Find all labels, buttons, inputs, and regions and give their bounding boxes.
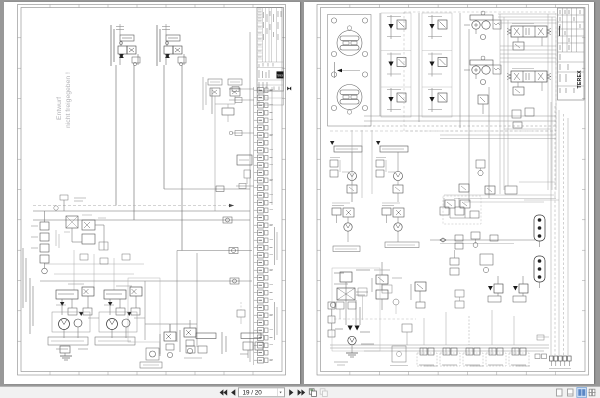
- charge pump group G1 wires: [336, 215, 338, 223]
- aux column wires: [381, 262, 383, 310]
- manifold valve W1 label plate: [419, 364, 434, 366]
- grid risers to lower section: [352, 130, 372, 202]
- feeder wire y98: [229, 98, 254, 103]
- viewer toolbar: [0, 386, 600, 398]
- solenoid valve Y6 caption below: [428, 109, 442, 111]
- frame inner border: [321, 8, 586, 372]
- valve group B solenoid valve: [164, 46, 173, 54]
- priority valve PV2 stub wires: [475, 74, 477, 79]
- manifold drop wires: [424, 310, 514, 345]
- directional valve DV2 springs: [507, 74, 511, 80]
- continuous view icon: [568, 389, 574, 396]
- brake valve B1 rotated label: [159, 334, 161, 356]
- watermark "Entwurf nicht freigegeben !": [56, 72, 72, 128]
- manifold valve W4 label plate: [488, 364, 503, 366]
- G1 name plate: [333, 246, 360, 252]
- rotated caption "Zusatzsteuerung": [23, 248, 26, 308]
- B2 lower comps: [184, 346, 207, 358]
- svg-text:nicht freigegeben !: nicht freigegeben !: [65, 72, 72, 128]
- ladder cell dark ticks: [259, 90, 273, 360]
- aux valve column box1: [376, 275, 388, 284]
- frame outer border: [317, 5, 589, 376]
- pump group P2 dark arrows: [108, 302, 112, 306]
- brake valve B1 spring box: [166, 344, 174, 350]
- charge pump group G2 valve body: [393, 208, 404, 217]
- valve group A solenoid valve: [118, 46, 127, 54]
- node symbol on y187: [216, 186, 224, 192]
- relief box on ladder: [237, 155, 252, 165]
- mid comp MC3: [485, 186, 495, 194]
- cluster C3 comps: [240, 342, 263, 358]
- solenoid valve Y4 solenoid arrow (dark): [429, 24, 434, 29]
- mid comp MC4: [505, 186, 517, 194]
- pump group P1 check valves: [68, 308, 77, 315]
- accumulator AC1 gas dots: [538, 218, 542, 222]
- priority valve PV2 top plate: [470, 60, 493, 65]
- auxiliary valve pair labels: [208, 79, 222, 85]
- check valve on bus y248: [229, 248, 238, 254]
- manifold valve W1 dashed box: [417, 353, 437, 366]
- mid solid collector b: [440, 138, 556, 140]
- brake valve B2 port circle: [187, 348, 192, 353]
- valve group A pilot symbols: [132, 57, 140, 63]
- supply tank hatched: [346, 353, 358, 357]
- reducer valve chain: [40, 211, 49, 274]
- manifold valve W4 valve: [489, 348, 496, 355]
- supply chain gauge circle: [330, 302, 335, 307]
- right terminator squares: [550, 356, 572, 366]
- pump module PM1 wires: [351, 152, 353, 172]
- mid comp MC2: [459, 184, 469, 192]
- valve group A port lines: [120, 41, 122, 47]
- tank return fitting: [60, 346, 70, 353]
- brake valve B2 rotated label: [179, 330, 181, 352]
- valve group A top stub: [119, 24, 121, 35]
- chain side labels: [31, 226, 38, 248]
- steering arrow marker: [337, 69, 342, 73]
- manifold valve W3 label plate: [465, 364, 480, 366]
- pump group P2 motor circle: [107, 319, 118, 330]
- lower small valve of cluster: [222, 108, 234, 115]
- svg-text:19 / 20: 19 / 20: [243, 390, 263, 397]
- solenoid valve Y4 valve body: [438, 20, 447, 29]
- wire bus y209: [33, 210, 250, 212]
- shuttle valve below PV2: [478, 95, 488, 114]
- feeder wire y131: [229, 131, 254, 136]
- solenoid valve Y2 valve body: [397, 58, 406, 67]
- solenoid valve Y5 caption below: [428, 73, 442, 75]
- solenoid valve Y2 solenoid arrow (dark): [388, 62, 393, 67]
- gauge symbol on bus: [54, 206, 58, 210]
- priority valve PV1 bottom port circle: [480, 34, 485, 39]
- wire from group A port 2: [133, 65, 135, 220]
- wire bus y187: [164, 188, 250, 190]
- arrow head on dashed line: [229, 204, 234, 208]
- auxiliary valve rotated caption: [202, 77, 204, 110]
- small comp right of G2 a: [440, 198, 449, 215]
- supply group enclosure: [332, 268, 416, 351]
- valve group B label box: [166, 35, 180, 41]
- G2 name plate: [385, 242, 419, 248]
- fold mark bowtie: [287, 87, 291, 91]
- mid valve M1: [415, 282, 426, 308]
- manifold valve W2 valve: [443, 348, 450, 355]
- release valve R1 solenoid arrow: [488, 286, 493, 291]
- solenoid valve Y3 caption below: [387, 109, 401, 111]
- valve V10: [82, 220, 95, 230]
- last-page button: [298, 389, 306, 395]
- solenoid valve Y1 caption below: [387, 36, 401, 38]
- svg-text:Entwurf: Entwurf: [56, 97, 63, 120]
- accumulator AC1 port wire: [539, 241, 541, 247]
- wire from group A port 1: [115, 65, 117, 206]
- drain wire to tank: [64, 353, 66, 356]
- release valve R1 valve body: [494, 284, 503, 293]
- two-page continuous icon: [588, 389, 595, 396]
- pump group P1 caption smudges: [48, 337, 88, 345]
- release valve R2 valve body: [519, 284, 528, 293]
- manifold valve W2 label plate: [442, 364, 457, 366]
- grid lower collector lines: [364, 116, 556, 126]
- pump module PM1 lower boxes: [347, 185, 357, 193]
- two-page view icon (active): [577, 388, 587, 398]
- valve grid column frames: [381, 13, 452, 117]
- center bus y238: [430, 240, 535, 244]
- small caption above bus: [74, 198, 86, 201]
- orbitrol U1 spool bars: [340, 36, 359, 41]
- pump group P2 pilot valve: [130, 287, 142, 296]
- manifold valve W1 valve: [420, 348, 427, 355]
- dashed reference line y203.5: [33, 205, 234, 207]
- solenoid valve Y6 valve body: [438, 93, 447, 102]
- aux column captions: [372, 270, 402, 292]
- connector ladder column: [254, 88, 273, 364]
- priority valve PV1 twin circles: [472, 21, 480, 29]
- solenoid valve Y1 solenoid arrow (dark): [388, 24, 393, 29]
- priority valve PV2 bottom port circle: [480, 79, 485, 84]
- pump module PM2 side comps: [376, 160, 384, 167]
- pump module PM1 top label plate: [334, 146, 362, 152]
- svg-text:TEREX: TEREX: [277, 73, 283, 77]
- left riser pipes: [500, 14, 508, 194]
- pump module PM2 wires: [397, 152, 399, 172]
- first-page button: [220, 389, 228, 395]
- brake valve B2 spring box: [186, 340, 194, 346]
- grid mid bus: [418, 13, 420, 122]
- wire bus y279: [40, 280, 252, 282]
- right risers lower: [504, 102, 568, 355]
- page-forward layout icon (disabled): [320, 389, 327, 397]
- valve group B top stub: [165, 24, 167, 35]
- mid band connecting wires: [444, 195, 556, 202]
- release valve R1 wires: [497, 293, 499, 296]
- brake valve B2 wire: [189, 320, 191, 328]
- center box V22: [470, 211, 479, 218]
- directional valve DV2 wires below: [517, 82, 519, 87]
- title block extra text rows: [258, 9, 262, 57]
- orbitrol U1 body circle: [337, 31, 362, 56]
- pump group P2 connecting wires: [109, 299, 111, 315]
- pump module PM2 top label plate: [380, 146, 408, 152]
- page number box: [239, 388, 285, 397]
- steering unit enclosure: [328, 15, 372, 127]
- directional valve DV1 body: [511, 26, 547, 37]
- aux valve column box2: [376, 290, 388, 299]
- bottom mid box M2: [390, 346, 408, 366]
- wire x166 drop: [169, 324, 171, 332]
- pre-manifold comp pair: [455, 290, 464, 308]
- cluster C3 name plate: [241, 333, 261, 339]
- comp near ladder x237: [237, 302, 245, 324]
- pump module PM2 pump circle: [394, 172, 403, 181]
- accumulator AC2 shell: [534, 256, 545, 282]
- manifold valve W5 valve: [512, 348, 519, 355]
- control block dashed enclosure: [404, 12, 556, 131]
- check valve on bus y218: [223, 217, 232, 223]
- directional valve DV2 pilot box below: [513, 87, 524, 95]
- frame tick marks: [18, 5, 286, 376]
- solenoid valve Y1 caption above: [387, 16, 401, 18]
- third pump assembly: [140, 348, 162, 368]
- subsystem enclosure box: [128, 278, 160, 342]
- right schematic page: [304, 2, 594, 384]
- manifold valve W5 dashed box: [509, 353, 529, 366]
- directional valve DV1 springs: [507, 29, 511, 35]
- manifold valve W3 dashed box: [463, 353, 483, 366]
- right-mid pump comp: [382, 285, 399, 314]
- solenoid valve Y5 solenoid arrow (dark): [429, 62, 434, 67]
- cluster caption smudges: [64, 215, 106, 232]
- small relief valve: [99, 242, 108, 250]
- pressure tap T1: [60, 195, 68, 200]
- right lower caption: [549, 368, 571, 370]
- solenoid valve Y4 caption above: [428, 16, 442, 18]
- frame tick marks: [317, 5, 586, 376]
- orbitrol U2 port circles: [331, 72, 336, 77]
- tank symbol hatched: [60, 356, 72, 360]
- bus stack with circle: [471, 232, 480, 247]
- charge pump group G1 valve body: [343, 208, 354, 217]
- pump module PM2 lower boxes: [393, 185, 403, 193]
- small comp right of G2 b: [455, 198, 464, 215]
- right riser pipes: [548, 14, 556, 190]
- ladder rotated caption 1: [275, 227, 278, 265]
- charge pump group G2 caption above: [382, 202, 400, 204]
- check valve on bus y279: [230, 278, 239, 284]
- accumulator AC2 port wire: [539, 282, 541, 288]
- mid comp MC1: [476, 160, 485, 176]
- wire from group B port 1: [163, 65, 165, 189]
- charge pump group G2 solenoid box: [382, 208, 391, 215]
- wire bottom bus y322: [145, 323, 197, 325]
- pump group enclosures: [52, 312, 137, 332]
- priority valve PV1 spring box: [493, 20, 501, 29]
- release valve R2 wires: [522, 293, 524, 296]
- solenoid valve Y2 top port: [390, 53, 392, 62]
- charge pump group G2 wires: [386, 215, 388, 223]
- center valve pair V20: [445, 200, 455, 208]
- accumulator AC1 shell: [534, 215, 545, 241]
- pump group P2 drain lines: [111, 329, 113, 338]
- manifold valve W5 label plate: [511, 364, 526, 366]
- mid dashed collector: [330, 130, 556, 132]
- pump module PM2 solenoid mark: [376, 141, 380, 145]
- small comp below relief box: [244, 170, 251, 184]
- below-bus cluster left: [450, 250, 459, 275]
- pump group P2 pump circle: [122, 319, 130, 327]
- cluster caption text: [211, 88, 213, 114]
- steering rotated caption: [334, 62, 336, 78]
- cluster wires: [72, 225, 104, 250]
- valve group B pilot symbols: [178, 57, 186, 63]
- valve group A rotated labels: [110, 25, 112, 66]
- ladder bus vertical: [253, 87, 255, 365]
- manifold valve W2 dashed box: [440, 353, 460, 366]
- feeder wire y184: [236, 184, 254, 189]
- brake valve B1 port circle: [167, 352, 172, 357]
- left schematic page: [4, 2, 300, 384]
- lower caption rows: [56, 348, 88, 350]
- solenoid valve Y6 caption above: [428, 89, 442, 91]
- next-page button: [289, 389, 293, 396]
- charge pump group G1 caption above: [332, 202, 350, 204]
- pump module PM1 pump circle: [348, 172, 357, 181]
- solenoid valve Y5 caption above: [428, 53, 442, 55]
- grid right bus: [459, 13, 461, 128]
- supply cluster extra parts: [334, 270, 374, 344]
- comb cluster above manifold: [402, 324, 412, 345]
- solenoid valve Y4 caption below: [428, 36, 442, 38]
- right bus vertical: [249, 32, 251, 362]
- manifold valve W3 valve: [466, 348, 473, 355]
- bottom mid caption: [160, 332, 226, 354]
- inter-group caption specks: [56, 284, 145, 318]
- ladder outer vertical: [271, 87, 273, 205]
- priority valve PV2 top circle: [481, 56, 485, 60]
- pump group P2 check valves: [116, 308, 125, 315]
- brake valve B2 valve body: [184, 328, 196, 337]
- solenoid valve Y3 solenoid arrow (dark): [388, 97, 393, 102]
- solenoid valve Y2 caption below: [387, 73, 401, 75]
- valve group B port lines: [166, 41, 168, 47]
- supply chain filter: [337, 288, 355, 300]
- priority valve PV2 spring box: [493, 65, 501, 74]
- priority valve PV1 stub wires: [475, 29, 477, 34]
- sub table below title block: [257, 91, 284, 105]
- below-bus box right: [480, 254, 493, 273]
- pump module PM1 captions: [330, 157, 340, 159]
- directional valve DV2 body: [511, 71, 547, 82]
- brake valve B1 wire: [169, 324, 171, 332]
- solenoid valve Y1 top port: [390, 15, 392, 24]
- manifold valve W4 dashed box: [486, 353, 506, 366]
- bottom-left extra comps: [56, 230, 130, 264]
- filter block F1: [66, 216, 78, 228]
- bottom-left wire mesh: [44, 250, 144, 290]
- wire bus y248.5: [177, 250, 252, 252]
- pump group P2 manifold box: [104, 290, 126, 299]
- supply side column comps: [328, 302, 335, 337]
- valve group A label box: [120, 35, 134, 41]
- frame inner border: [21, 8, 282, 372]
- accumulator AC2 gas dots: [538, 259, 542, 263]
- orbitrol U2 spool bars: [340, 90, 359, 95]
- supply chain dark arrows: [348, 326, 360, 331]
- charge pump group G1 pump circle: [344, 223, 352, 231]
- pump module PM1 side comps: [330, 160, 338, 167]
- valve group B rotated labels: [156, 25, 158, 66]
- solenoid valve Y5 valve body: [438, 58, 447, 67]
- release valve R2 box below: [513, 296, 526, 302]
- dropdown caret: [280, 392, 282, 394]
- title block table: [257, 8, 284, 92]
- brake valve B1 valve body: [164, 332, 176, 341]
- PV drop wire left: [468, 29, 470, 202]
- title block table: [558, 8, 585, 100]
- feeder wire y87: [229, 87, 254, 92]
- priority valve PV1 top circle: [481, 11, 485, 15]
- release valve R1 box below: [488, 296, 501, 302]
- solenoid valve Y4 top port: [431, 15, 433, 24]
- center valve pair V21: [460, 200, 470, 208]
- frame outer border: [18, 5, 286, 376]
- valve V11: [82, 234, 95, 244]
- pump group P1 drain lines: [63, 329, 65, 338]
- pump group P1 connecting wires: [61, 299, 63, 315]
- auxiliary valve pair bodies: [210, 88, 220, 96]
- pump group P1 manifold box: [56, 290, 78, 299]
- orbitrol U1 port circles: [331, 18, 336, 23]
- rotated caption line 2: [30, 278, 33, 334]
- small pilot valves lower: [512, 108, 534, 128]
- pump group P2 caption smudges: [95, 337, 135, 345]
- bus comp pair: [455, 235, 463, 249]
- wire bus y218: [33, 219, 250, 221]
- valve group A dark marks: [119, 54, 124, 58]
- solenoid valve Y3 top port: [390, 88, 392, 97]
- directional valve DV2 arrows: [514, 73, 520, 80]
- TEREX logo right page: [577, 70, 583, 89]
- single page view icon: [557, 389, 563, 396]
- solenoid valve Y6 top port: [431, 88, 433, 97]
- bus diamond fitting: [440, 238, 446, 242]
- supply caption smudges: [334, 284, 368, 325]
- mid solid collector a: [440, 134, 556, 136]
- directional valve DV1 arrows: [514, 28, 520, 35]
- directional valve DV1 pilot box below: [513, 42, 524, 50]
- ladder rotated caption 2: [275, 302, 278, 340]
- orbitrol U2 body circle: [337, 85, 362, 110]
- pre-terminator boxes: [535, 335, 549, 359]
- pump module PM2 captions: [376, 157, 386, 159]
- svg-text:TEREX: TEREX: [577, 70, 583, 89]
- supply chain top box: [340, 272, 352, 282]
- valve group B dark marks: [165, 54, 170, 58]
- priority valve PV1 top plate: [470, 15, 493, 20]
- page-backward layout icon: [309, 389, 316, 397]
- vertical wire x193: [196, 253, 198, 347]
- piping harness top: [498, 14, 556, 62]
- solenoid valve Y1 valve body: [397, 20, 406, 29]
- release valve R2 solenoid arrow: [513, 286, 518, 291]
- PV drop wire right: [488, 87, 490, 198]
- center cluster dashed enclosure: [443, 196, 481, 224]
- pump group P1 dark arrows: [60, 302, 64, 306]
- supply chain pump circle: [348, 336, 356, 344]
- B2 name plate: [196, 333, 216, 339]
- priority valve PV2 twin circles: [472, 66, 480, 74]
- directional valve DV1 wires below: [517, 37, 519, 42]
